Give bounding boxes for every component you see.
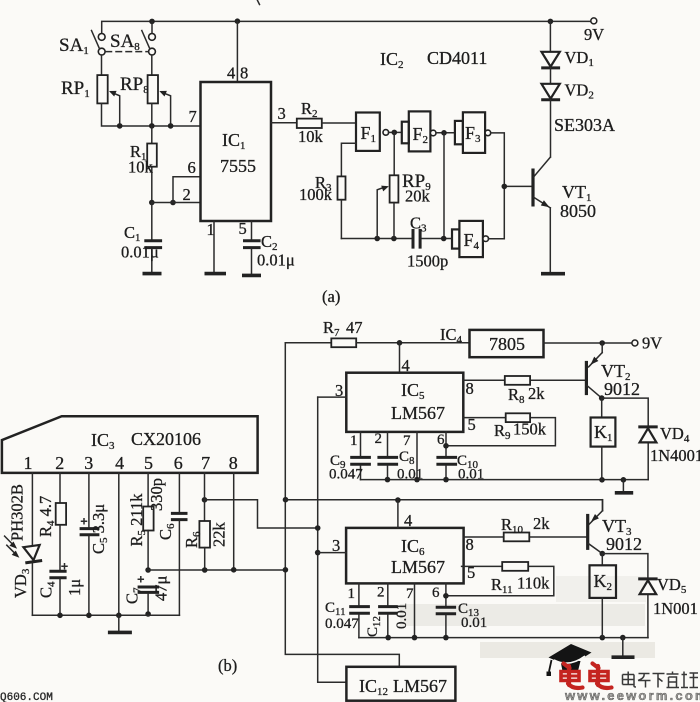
- svg-text:1N4001: 1N4001: [650, 446, 700, 465]
- wire F1 output to F2 input: [389, 131, 402, 133]
- node ground stub junction: [621, 477, 627, 483]
- svg-text:6: 6: [174, 453, 183, 473]
- wire dashed gang link between SA1 and SA8: [106, 51, 148, 53]
- pin label 2 of IC5: [375, 431, 383, 447]
- node R1-C1-pin2 junction: [149, 200, 155, 206]
- resistor R1 10k: [128, 126, 157, 203]
- terminal 9V of section b: [632, 334, 662, 353]
- node F1 output junction: [392, 130, 398, 136]
- svg-text:7: 7: [406, 586, 414, 602]
- node RP8 bottom junction: [149, 123, 155, 129]
- node K1 ground junction: [599, 477, 605, 483]
- relay K1: [591, 398, 616, 480]
- wire IC3 pin7 to pin3 bus of IC6: [205, 500, 318, 528]
- watermark url www.eeworm.com: [564, 688, 700, 702]
- pin label 5 of IC5: [468, 415, 476, 434]
- pin label 3 of IC6: [332, 536, 340, 555]
- svg-text:Q606.COM: Q606.COM: [0, 692, 53, 702]
- resistor R3 100k: [299, 143, 356, 238]
- svg-text:9012: 9012: [604, 379, 640, 399]
- wire pin3 bus down to IC6 and IC12: [318, 397, 347, 682]
- svg-text:110k: 110k: [517, 574, 550, 593]
- node VT3 collector junction: [600, 551, 606, 557]
- watermark site name characters: [623, 672, 699, 688]
- wire 9V supply rail of section a: [102, 21, 591, 33]
- capacitor C2 0.01u: [243, 221, 295, 273]
- svg-text:2: 2: [375, 431, 383, 447]
- wire timing line along bottom of gates: [341, 238, 452, 240]
- op IC1 7555 timer box: [201, 82, 272, 221]
- svg-text:1: 1: [24, 453, 33, 473]
- node pin2-pin6 branch junction: [170, 200, 176, 206]
- potentiometer RP8: [120, 55, 171, 126]
- node RP8 wiper junction: [168, 123, 174, 129]
- node RP9 wiper junction: [374, 236, 380, 242]
- site watermark Q606.COM: [0, 692, 53, 702]
- svg-text:CD4011: CD4011: [427, 48, 487, 68]
- resistor R10 2k: [464, 514, 587, 541]
- capacitor C9 0.047: [329, 432, 371, 483]
- switch SA1: [59, 31, 105, 58]
- wire 5V rail to IC6 pin4 and VT3 emitter: [286, 500, 603, 511]
- svg-text:8050: 8050: [560, 201, 596, 221]
- node K2 rail junction: [600, 635, 606, 641]
- node pin4 ground junction: [116, 613, 122, 619]
- pin label 7: [189, 107, 197, 126]
- wire IC6 pin3: [318, 552, 346, 554]
- svg-text:IC12LM567: IC12LM567: [359, 676, 447, 698]
- svg-text:7805: 7805: [489, 334, 525, 354]
- tone decoder IC6 LM567: [346, 528, 464, 584]
- node 5V rail start junction: [283, 497, 289, 503]
- ground below IC3 pin4: [108, 615, 132, 632]
- pin label 3: [278, 104, 286, 123]
- capacitor C4 1u: [37, 564, 85, 616]
- wire to IC1 pin 2: [152, 202, 201, 204]
- ground below C2: [242, 274, 261, 278]
- svg-text:8: 8: [240, 64, 248, 83]
- wire IC1 supply pins 4 8: [236, 21, 238, 82]
- ground below K1 rail: [615, 480, 633, 493]
- svg-text:(a): (a): [322, 287, 340, 306]
- svg-text:0.01μ: 0.01μ: [257, 251, 295, 270]
- svg-text:LM567: LM567: [391, 403, 445, 423]
- svg-text:1: 1: [348, 586, 356, 602]
- node IC6 pin4 junction: [395, 497, 401, 503]
- svg-text:47: 47: [346, 318, 363, 337]
- label (b): [218, 656, 237, 675]
- wire pin7 net of IC1: [102, 103, 201, 126]
- wire IC5 pin6 to C10: [445, 432, 447, 456]
- decoder IC12 LM567: [346, 667, 455, 701]
- resistor R9 150k: [446, 413, 555, 446]
- wire IC3 ground rail: [32, 614, 179, 616]
- svg-text:R4 4.7: R4 4.7: [36, 496, 57, 537]
- svg-text:7: 7: [403, 433, 411, 449]
- svg-text:1: 1: [350, 433, 358, 449]
- svg-text:9V: 9V: [642, 334, 662, 353]
- svg-text:22k: 22k: [210, 522, 229, 548]
- node RP1 wiper junction: [117, 123, 123, 129]
- relay K2: [590, 554, 617, 638]
- resistor R5 211k: [127, 473, 154, 570]
- wire bottom ground rail of section b: [359, 637, 648, 639]
- wire 7805 output to 9V terminal: [544, 342, 632, 344]
- pin label 8 of IC6: [466, 535, 474, 554]
- photodiode VD3 PH302B: [5, 473, 43, 615]
- node IC6 pin6 junction: [443, 593, 449, 599]
- LED VD2: [541, 68, 594, 102]
- svg-text:0.047: 0.047: [329, 467, 363, 483]
- NAND gate F2: [402, 111, 436, 151]
- regulator IC4 7805: [470, 330, 544, 357]
- ground below VT1: [541, 272, 565, 276]
- node pin6 R9 junction: [443, 443, 449, 449]
- pin label 1 of IC5: [350, 433, 358, 449]
- node C3 to F4 junction: [441, 236, 447, 242]
- pin label 6: [188, 158, 196, 177]
- svg-text:20k: 20k: [405, 187, 431, 206]
- wire IC1 pin1 to ground: [213, 221, 215, 272]
- wire F2 output down to C3 line: [443, 133, 445, 239]
- node IC3 pin7 junction: [202, 497, 208, 503]
- diode VD4 1N4001: [602, 398, 700, 480]
- svg-text:5: 5: [144, 453, 153, 473]
- svg-text:9012: 9012: [606, 534, 642, 554]
- svg-text:8: 8: [229, 453, 238, 473]
- node junction rail-IC1 pins 4,8: [235, 18, 241, 24]
- svg-text:8: 8: [466, 535, 474, 554]
- capacitor C13 0.01: [436, 601, 488, 638]
- node junction rail-VD1: [548, 19, 554, 25]
- svg-text:1500p: 1500p: [407, 252, 448, 271]
- svg-text:LM567: LM567: [391, 557, 445, 577]
- svg-text:2k: 2k: [528, 384, 545, 403]
- wire IC5 pin4 to supply rail: [399, 343, 401, 373]
- node VT2 collector junction: [599, 395, 605, 401]
- transistor VT1 8050: [533, 157, 596, 221]
- resistor R8 2k: [463, 376, 585, 406]
- svg-text:1μ: 1μ: [65, 579, 84, 596]
- node pin8 tie junction: [231, 567, 237, 573]
- LED VD1: [541, 21, 594, 69]
- node pin3 bus junction upper: [315, 525, 321, 531]
- capacitor C3 1500p: [407, 214, 448, 271]
- wire F2 output to F3 input: [436, 132, 455, 134]
- label IC4: [440, 325, 463, 346]
- pin label 7 of IC5: [403, 433, 411, 449]
- label SE303A: [554, 115, 615, 135]
- pin label 3 of IC5: [335, 381, 343, 400]
- svg-text:www.eeworm.com: www.eeworm.com: [564, 688, 700, 702]
- svg-text:C5 3.3μ: C5 3.3μ: [89, 504, 110, 554]
- pin label 6 of IC6: [432, 585, 440, 601]
- node C13 rail junction: [443, 635, 449, 641]
- tone decoder IC5 LM567: [346, 373, 463, 432]
- node tie to R7 bus junction: [283, 567, 289, 573]
- terminal 9V of section a: [584, 18, 604, 44]
- node junction rail-SA8: [149, 19, 155, 34]
- resistor R7 47: [285, 318, 469, 347]
- capacitor C5 3.3u: [80, 473, 110, 615]
- node C7 ground junction: [145, 611, 151, 617]
- node gate outputs junction: [502, 184, 508, 190]
- svg-text:4: 4: [227, 64, 235, 83]
- ground below C1: [143, 272, 162, 276]
- pin label 5: [239, 219, 247, 238]
- svg-text:PH302B: PH302B: [8, 484, 27, 541]
- svg-text:7: 7: [189, 107, 197, 126]
- resistor R6 22k: [182, 473, 229, 570]
- wire R7 down bus to IC12: [285, 343, 399, 667]
- wire VD2 to VT1 collector: [550, 100, 552, 157]
- capacitor C7 47u: [123, 576, 171, 616]
- capacitor C6 330p: [147, 473, 188, 615]
- pin label 4 of IC5: [402, 356, 410, 375]
- node pin7 rail junction: [412, 635, 418, 641]
- watermark graduation cap: [547, 644, 592, 676]
- svg-text:4: 4: [115, 453, 124, 473]
- label (a): [322, 287, 340, 306]
- switch SA8: [110, 31, 155, 55]
- svg-text:2: 2: [55, 453, 64, 473]
- ground below IC1 pin1: [205, 272, 227, 276]
- svg-text:7: 7: [201, 453, 210, 473]
- pin labels 1 2 7 of IC6: [348, 585, 415, 603]
- wire IC6 pin4: [397, 500, 399, 528]
- wire section a ground rail of decoders: [361, 479, 649, 481]
- wire IC6 pin7: [414, 583, 416, 637]
- diode VD5 1N001: [602, 554, 698, 638]
- watermark chongchong logo red characters: [561, 664, 612, 689]
- resistor R2 10k: [271, 99, 356, 146]
- svg-text:3: 3: [278, 104, 286, 123]
- node C10 ground junction: [443, 477, 449, 483]
- resistor R11 110k: [446, 562, 554, 596]
- pin labels 1-8 of IC3: [24, 453, 238, 473]
- svg-text:R5 211k: R5 211k: [127, 493, 148, 547]
- label IC2 CD4011: [380, 48, 487, 71]
- svg-text:100k: 100k: [299, 185, 333, 204]
- svg-text:0.01μ: 0.01μ: [121, 243, 159, 262]
- svg-text:0.047: 0.047: [325, 616, 359, 632]
- svg-text:0.01: 0.01: [394, 603, 410, 629]
- node C12 rail junction: [385, 635, 391, 641]
- node C4 ground junction: [57, 613, 63, 619]
- svg-text:6: 6: [188, 158, 196, 177]
- svg-text:47μ: 47μ: [152, 576, 171, 602]
- node pin5 C7 junction: [145, 567, 151, 573]
- node pin7 ground junction: [414, 477, 420, 483]
- pin label 2: [183, 185, 191, 204]
- node ground stub junction b: [620, 635, 626, 641]
- svg-text:9V: 9V: [584, 25, 604, 44]
- NAND gate F4: [452, 221, 489, 257]
- node RP9 bottom junction: [391, 236, 397, 242]
- resistor R4 4.7: [36, 473, 66, 570]
- pin label 5 of IC6: [467, 563, 475, 582]
- svg-text:(b): (b): [218, 656, 237, 675]
- pin label 8: [240, 64, 248, 83]
- pin label 1: [207, 220, 215, 239]
- wire VT1 emitter to ground: [549, 208, 551, 272]
- svg-text:2: 2: [377, 585, 385, 601]
- pin label 8 of IC5: [466, 379, 474, 398]
- wire F3 and F4 outputs joined to VT1 base: [489, 133, 532, 239]
- svg-text:1N001: 1N001: [653, 599, 698, 618]
- potentiometer RP9 20k: [377, 132, 431, 238]
- IR preamp IC3 CX20106: [2, 416, 258, 473]
- svg-text:CX20106: CX20106: [131, 429, 201, 449]
- svg-text:10k: 10k: [128, 158, 154, 177]
- capacitor C10 0.01: [436, 453, 484, 483]
- NAND gate F1: [356, 113, 389, 151]
- svg-text:4: 4: [404, 511, 412, 530]
- node IC5 pin4 junction on rail: [397, 340, 403, 346]
- svg-text:10k: 10k: [298, 127, 324, 146]
- capacitor C11 0.047: [325, 583, 370, 637]
- wire IC3 pin4: [118, 473, 120, 615]
- svg-text:8: 8: [466, 379, 474, 398]
- node IC6 pin3 junction: [315, 550, 321, 556]
- svg-text:2k: 2k: [533, 514, 550, 533]
- svg-text:5: 5: [239, 219, 247, 238]
- svg-text:7555: 7555: [220, 156, 256, 176]
- wire IC3 pin8: [233, 473, 235, 570]
- node F2 output junction: [441, 130, 447, 136]
- NAND gate F3: [455, 112, 491, 153]
- capacitor C8 0.01: [377, 432, 423, 483]
- svg-text:330p: 330p: [147, 478, 166, 511]
- transistor VT2 9012: [586, 343, 640, 399]
- node VT2 emitter junction: [599, 340, 605, 346]
- wire IC6 pin6: [445, 583, 447, 606]
- node pin7 tie junction: [202, 567, 208, 573]
- wire IC5 pin3: [318, 396, 347, 398]
- capacitor C1 0.01u: [121, 203, 162, 272]
- pin label 4: [227, 64, 235, 83]
- stray mark top edge: [258, 1, 260, 5]
- ground below K2 rail: [612, 638, 635, 658]
- svg-text:6: 6: [432, 585, 440, 601]
- node C8 ground junction: [385, 477, 391, 483]
- svg-text:150k: 150k: [513, 420, 547, 439]
- pin label 4 of IC6: [404, 511, 412, 530]
- svg-text:2: 2: [183, 185, 191, 204]
- svg-text:0.01: 0.01: [461, 615, 487, 631]
- svg-text:3: 3: [84, 453, 93, 473]
- wire IC5 pin7 to ground rail: [416, 432, 418, 480]
- pin label 6 of IC5: [437, 432, 445, 448]
- capacitor C12 0.01 rotated labels: [365, 583, 410, 637]
- potentiometer RP1: [61, 55, 120, 126]
- svg-text:SE303A: SE303A: [554, 115, 615, 135]
- node C5 ground junction: [86, 613, 92, 619]
- transistor VT3 9012: [588, 500, 642, 554]
- wire to IC1 pin 6: [173, 177, 201, 203]
- wire pins 5 7 8 tie line: [148, 569, 285, 571]
